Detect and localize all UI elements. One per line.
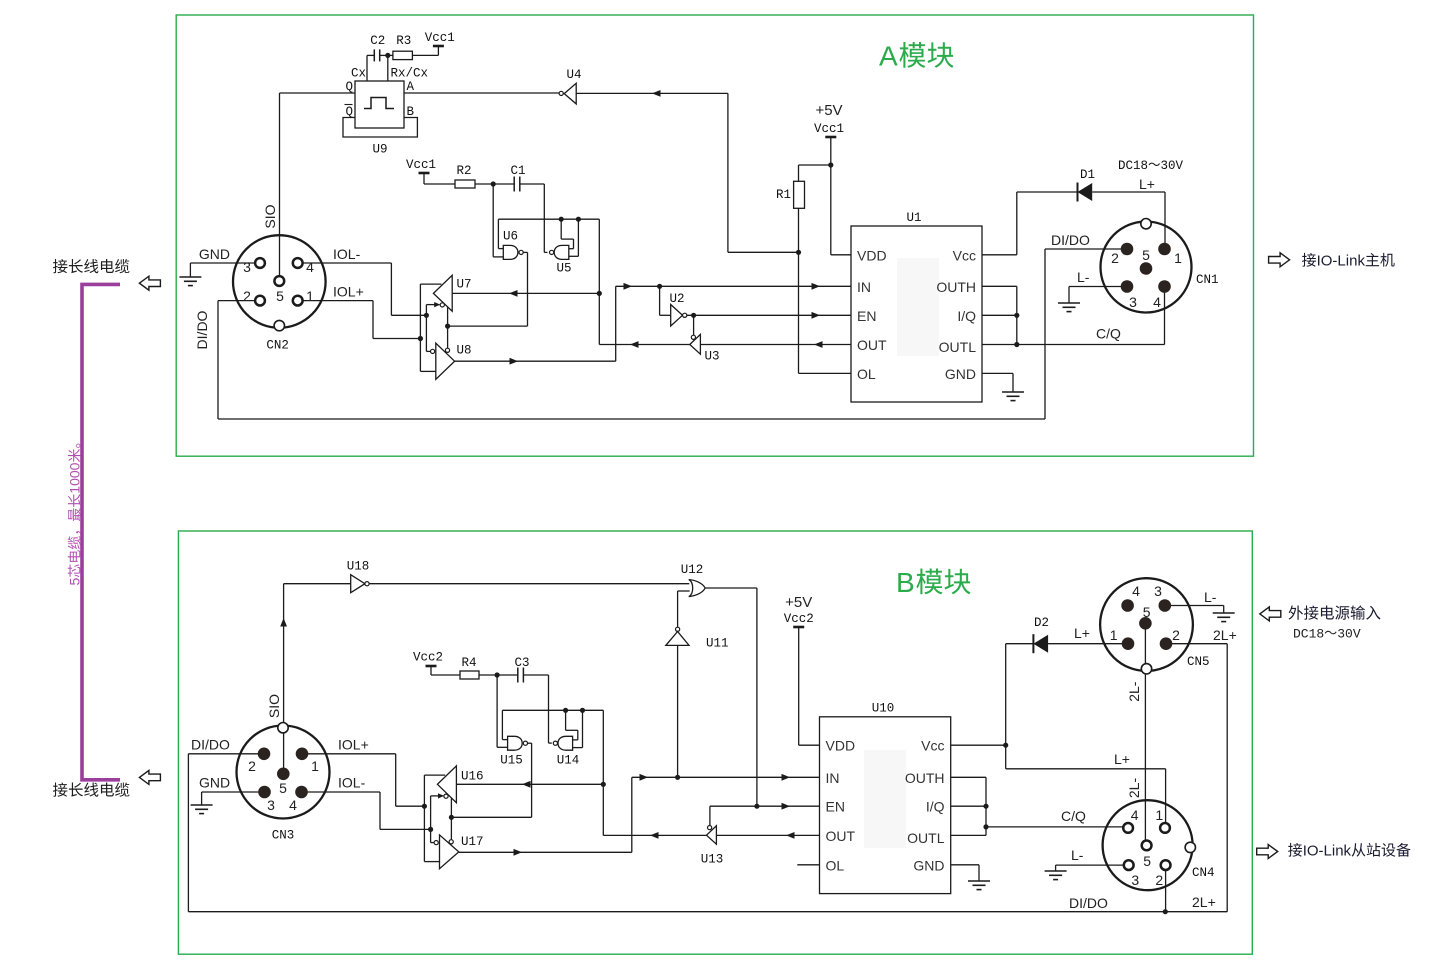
svg-text:4: 4 <box>1131 807 1139 823</box>
wire 2L- CN5 pin5 to CN4 pin5 <box>1144 625 1146 846</box>
wire OUTH/I/Q/OUTL stubs (B) <box>951 776 986 778</box>
svg-text:U10: U10 <box>872 702 895 716</box>
gate U12 <box>689 580 705 597</box>
svg-text:U18: U18 <box>347 560 370 574</box>
capacitor C2 <box>366 55 368 81</box>
wire to U17 top bubble <box>450 798 452 839</box>
wire to R1 top <box>799 164 831 166</box>
svg-text:IOL-: IOL- <box>333 246 361 262</box>
svg-text:1: 1 <box>311 758 319 774</box>
resistor R2 <box>455 180 475 188</box>
wire SIO vertical <box>279 93 281 277</box>
arrow 接IO-Link主机 <box>1269 253 1290 267</box>
svg-text:U4: U4 <box>566 68 581 82</box>
svg-text:Vcc1: Vcc1 <box>425 31 455 45</box>
svg-text:A: A <box>407 80 415 94</box>
svg-text:3: 3 <box>1129 294 1137 310</box>
svg-text:VDD: VDD <box>826 738 856 754</box>
svg-text:Vcc2: Vcc2 <box>784 612 814 626</box>
svg-text:4: 4 <box>1153 294 1161 310</box>
svg-text:IO-Link: IO-Link <box>1303 843 1352 860</box>
svg-text:Rx/Cx: Rx/Cx <box>391 67 429 81</box>
nand U5 (mirrored) <box>554 245 569 259</box>
svg-text:U5: U5 <box>556 262 571 276</box>
arrow 外接电源输入 <box>1260 607 1281 621</box>
wire U14 input jog 1 <box>565 710 567 730</box>
buffer U2 <box>671 305 683 327</box>
wire U14 input 2 <box>582 710 584 747</box>
svg-text:I/Q: I/Q <box>957 308 976 324</box>
svg-text:D1: D1 <box>1080 168 1095 182</box>
svg-text:U16: U16 <box>461 770 484 784</box>
wire U12 out <box>705 587 757 589</box>
IC U10 <box>820 717 951 894</box>
svg-text:2: 2 <box>248 758 256 774</box>
svg-text:DI/DO: DI/DO <box>1069 895 1108 911</box>
inverter U11 (up) <box>676 627 680 631</box>
wire U2 out to U3 <box>693 315 695 335</box>
wire L+ down to CN4 pin1 <box>1165 769 1167 828</box>
svg-text:2: 2 <box>1111 250 1119 266</box>
capacitor C1 <box>513 177 515 192</box>
wire U6 out <box>523 251 527 253</box>
wire GND from CN3 <box>202 791 265 793</box>
svg-text:DC18: DC18 <box>1293 627 1324 642</box>
svg-text:L+: L+ <box>1074 625 1090 641</box>
svg-text:DI/DO: DI/DO <box>191 737 230 753</box>
svg-text:IOL+: IOL+ <box>338 737 369 753</box>
wire vertical x599 <box>598 219 600 344</box>
svg-text:OUTH: OUTH <box>936 279 976 295</box>
svg-text:DI/DO: DI/DO <box>194 310 210 349</box>
wire OL row <box>799 372 852 374</box>
svg-text:5: 5 <box>1142 247 1150 263</box>
wire bus y710 (B) <box>502 709 603 711</box>
wire L- CN5 <box>1165 605 1224 607</box>
node Rx/Cx junction <box>387 55 389 81</box>
arrow to cable (bottom) <box>139 770 160 784</box>
wire feedback loop around U7/U8 <box>420 283 441 285</box>
svg-text:U17: U17 <box>461 835 484 849</box>
wire Vcc1 stem <box>830 137 832 255</box>
buffer U8 (right-pointing) <box>436 343 455 379</box>
inverter U4 <box>564 83 576 104</box>
svg-text:D2: D2 <box>1034 616 1049 630</box>
svg-text:IO-Link: IO-Link <box>1317 253 1366 270</box>
wire OUTH/I/Q/OUTL stubs <box>982 285 1017 287</box>
label 接IO-Link从站设备 <box>1288 843 1302 857</box>
connector CN3 <box>237 726 330 819</box>
diode D2 <box>1006 643 1034 645</box>
svg-text:EN: EN <box>826 799 845 815</box>
wire D2 to CN5 pin1 <box>1048 643 1128 645</box>
svg-text:4: 4 <box>289 797 297 813</box>
power Vcc1 (U9) <box>433 45 444 48</box>
svg-text:Vcc: Vcc <box>953 247 976 263</box>
svg-text:L+: L+ <box>1114 751 1130 767</box>
wire R2 node to U6 input <box>492 184 494 257</box>
wire DI/DO bottom bus (B) <box>188 911 1227 913</box>
wire IOL- branch <box>425 305 427 352</box>
svg-text:1: 1 <box>1110 627 1118 643</box>
wire R1 bottom to OL <box>798 208 800 373</box>
svg-text:EN: EN <box>857 308 876 324</box>
svg-text:GND: GND <box>945 366 976 382</box>
wire U16 row <box>456 783 603 785</box>
ground (CN3) <box>191 805 213 814</box>
power Vcc2 rail (B) <box>793 626 804 629</box>
svg-text:3: 3 <box>1131 872 1139 888</box>
svg-text:R1: R1 <box>776 188 791 202</box>
A module frame <box>176 15 1253 456</box>
svg-text:VDD: VDD <box>857 247 887 263</box>
svg-text:SIO: SIO <box>262 204 278 228</box>
svg-text:DI/DO: DI/DO <box>1051 232 1090 248</box>
svg-text:C2: C2 <box>370 34 385 48</box>
wire EN to U13 bubble <box>709 806 711 825</box>
svg-text:1: 1 <box>1174 250 1182 266</box>
wire C3 to U14 <box>548 675 550 743</box>
svg-text:OUTL: OUTL <box>939 339 977 355</box>
svg-text:5: 5 <box>67 577 83 585</box>
connector CN1 <box>1101 222 1192 313</box>
svg-text:A: A <box>879 41 898 72</box>
wire CN4 pin2 down to bus <box>1165 865 1167 912</box>
wire U18 out to U12 <box>369 583 689 585</box>
wire L+ row to CN4 <box>1006 768 1166 770</box>
svg-text:5: 5 <box>1143 853 1151 869</box>
svg-text:2: 2 <box>1155 872 1163 888</box>
svg-text:U12: U12 <box>681 563 704 577</box>
wire EN row (B) <box>710 805 820 807</box>
wire DI/DO from CN2 <box>218 300 260 302</box>
wire to U8 top bubble <box>447 307 449 348</box>
svg-text:OL: OL <box>826 857 845 873</box>
svg-text:L-: L- <box>1077 269 1090 285</box>
svg-text:1: 1 <box>306 288 314 304</box>
nand U14 (mirrored) <box>558 736 573 750</box>
svg-text:C/Q: C/Q <box>1096 326 1121 342</box>
svg-text:OUTL: OUTL <box>907 830 945 846</box>
svg-text:U14: U14 <box>557 754 580 768</box>
wire U5 input 2 <box>577 219 579 256</box>
wire C/Q row (A) <box>1017 344 1165 346</box>
wire D2 anode down to Vcc node <box>1005 644 1007 769</box>
wire GND from CN2 <box>190 262 260 264</box>
svg-text:30V: 30V <box>1161 159 1184 173</box>
svg-text:30V: 30V <box>1337 627 1361 642</box>
svg-text:IOL-: IOL- <box>338 775 366 791</box>
resistor R1 <box>794 181 805 208</box>
label 外接电源输入 <box>1289 605 1303 619</box>
wire IOL- branch (B) <box>430 796 432 843</box>
wire IOL+ from CN2 <box>298 300 373 302</box>
inverter U3 <box>690 334 701 354</box>
label 5芯电缆，最长1000米。 <box>67 444 83 586</box>
resistor R4 <box>460 671 479 679</box>
wire IN row (B) <box>632 776 820 778</box>
B module frame <box>178 531 1252 954</box>
power Vcc1 (R2) <box>419 172 430 175</box>
wire bus y219 <box>498 218 599 220</box>
wire L- CN4 <box>1056 864 1124 866</box>
wire Vcc to D1 <box>982 254 1017 256</box>
wire DI/DO from CN3 <box>188 753 264 755</box>
svg-text:+5V: +5V <box>815 102 842 119</box>
svg-text:2L+: 2L+ <box>1192 894 1216 910</box>
svg-text:2: 2 <box>243 288 251 304</box>
svg-text:C/Q: C/Q <box>1061 808 1086 824</box>
label 接长线电缆 bottom <box>53 782 67 796</box>
svg-text:4: 4 <box>306 259 314 275</box>
svg-text:Q: Q <box>345 105 353 119</box>
wire OUT row <box>700 344 851 346</box>
wire U8 output to IN <box>615 286 617 361</box>
svg-text:U13: U13 <box>701 853 724 867</box>
svg-text:U9: U9 <box>372 143 387 157</box>
svg-text:Q: Q <box>345 80 353 94</box>
svg-text:R3: R3 <box>396 34 411 48</box>
wire GND stub U10 <box>951 864 979 866</box>
connector CN2 <box>233 235 326 328</box>
svg-text:U3: U3 <box>704 350 719 364</box>
wire U11 to IN row <box>677 645 679 777</box>
wire U3 output left <box>599 344 690 346</box>
wire to U18 <box>284 583 351 585</box>
svg-text:1: 1 <box>1155 807 1163 823</box>
wire L- CN1 <box>1069 286 1127 288</box>
ground (CN5 L-) <box>1213 613 1235 622</box>
power Vcc1 rail (A) <box>825 136 836 139</box>
svg-text:2L-: 2L- <box>1126 778 1142 799</box>
diode D1 <box>1077 183 1079 202</box>
svg-text:U2: U2 <box>669 292 684 306</box>
wire C1 to U5 out <box>543 184 545 252</box>
svg-text:2: 2 <box>1172 627 1180 643</box>
svg-text:GND: GND <box>199 246 230 262</box>
wire 2L+ CN5 pin2 right and down <box>1166 643 1227 645</box>
wire to U2 input <box>659 286 661 315</box>
ground (U1) <box>1002 392 1024 401</box>
svg-text:CN3: CN3 <box>272 829 295 843</box>
wire U5 input jog 1 <box>560 219 562 239</box>
svg-text:B: B <box>407 105 415 119</box>
svg-text:5: 5 <box>279 780 287 796</box>
wire DI/DO vertical to CN1 <box>1044 249 1046 419</box>
wire U13 output left <box>603 834 706 836</box>
wire Vcc row (B) <box>951 744 1006 746</box>
svg-text:I/Q: I/Q <box>926 799 945 815</box>
inverter U13 <box>707 826 717 844</box>
svg-text:C3: C3 <box>514 656 529 670</box>
monostable U9 <box>355 81 404 128</box>
svg-text:U7: U7 <box>457 278 472 292</box>
wire feedback to R1 node <box>728 251 799 253</box>
wire U7 row <box>452 292 599 294</box>
wire U4 input from feedback <box>576 92 728 94</box>
svg-text:Vcc1: Vcc1 <box>406 158 436 172</box>
svg-text:L-: L- <box>1071 847 1084 863</box>
svg-text:GND: GND <box>913 857 944 873</box>
svg-text:SIO: SIO <box>266 694 282 718</box>
arrow to cable (top) <box>139 276 160 290</box>
buffer U7 (left-pointing) <box>433 275 452 311</box>
svg-text:5: 5 <box>1143 604 1151 620</box>
wire IOL- from CN3 <box>302 791 381 793</box>
wire VDD row <box>831 254 851 256</box>
ground (CN1 L-) <box>1058 303 1080 312</box>
power Vcc2 (R4) <box>426 665 437 668</box>
nand U6 <box>503 245 518 259</box>
svg-text:U15: U15 <box>500 754 523 768</box>
svg-text:3: 3 <box>243 259 251 275</box>
capacitor C3 <box>517 668 519 683</box>
wire Q to SIO corner <box>280 92 356 94</box>
svg-text:R4: R4 <box>461 656 476 670</box>
label 接IO-Link主机 <box>1302 253 1316 267</box>
wire vertical x603 <box>602 710 604 835</box>
label 接长线电缆 top <box>53 259 67 273</box>
cable bracket (purple) <box>82 284 120 779</box>
svg-text:Vcc2: Vcc2 <box>413 651 443 665</box>
svg-text:IOL+: IOL+ <box>333 284 364 300</box>
svg-text:L+: L+ <box>1139 176 1155 192</box>
wire feedback vertical <box>727 93 729 252</box>
svg-text:OUT: OUT <box>826 828 856 844</box>
svg-text:R2: R2 <box>456 164 471 178</box>
wire IOL+ from CN3 <box>302 753 396 755</box>
svg-text:1000: 1000 <box>67 462 83 493</box>
connector CN4 <box>1103 800 1193 890</box>
ground (CN2) <box>179 277 201 286</box>
svg-text:C1: C1 <box>510 164 525 178</box>
wire U9.A to U4 <box>404 92 559 94</box>
wire OUT row (B) <box>716 834 819 836</box>
ground (CN4 L-) <box>1045 871 1067 880</box>
svg-text:4: 4 <box>1132 583 1140 599</box>
IC U1 <box>851 226 982 402</box>
wire DI/DO bottom bus (A) <box>218 418 1045 420</box>
svg-text:IN: IN <box>857 279 871 295</box>
svg-text:OL: OL <box>857 366 876 382</box>
wire U11 to U12 <box>678 590 690 592</box>
buffer U18 <box>351 575 365 593</box>
svg-text:5: 5 <box>276 288 284 304</box>
buffer U16 (left-pointing) <box>437 766 456 803</box>
svg-text:Cx: Cx <box>351 67 366 81</box>
svg-text:CN5: CN5 <box>1187 655 1210 669</box>
svg-text:B: B <box>896 567 915 598</box>
wire feedback loop U16/U17 <box>424 774 445 776</box>
wire EN row <box>687 314 851 316</box>
wire Vcc2 stem <box>798 627 800 745</box>
svg-text:2L+: 2L+ <box>1213 627 1237 643</box>
svg-text:U6: U6 <box>503 230 518 244</box>
wire IN row <box>616 285 851 287</box>
ground (U10) <box>968 881 990 890</box>
svg-text:IN: IN <box>826 770 840 786</box>
U9 bracket <box>343 118 417 138</box>
svg-text:3: 3 <box>1154 583 1162 599</box>
pulse symbol in U9 <box>364 98 394 109</box>
svg-text:CN2: CN2 <box>266 339 289 353</box>
svg-text:2L-: 2L- <box>1126 681 1142 702</box>
wire OL stub (B) <box>797 864 819 866</box>
svg-text:U8: U8 <box>457 344 472 358</box>
svg-text:OUTH: OUTH <box>905 770 945 786</box>
wire SIO vertical (B) <box>283 584 285 769</box>
svg-text:3: 3 <box>267 797 275 813</box>
svg-text:U1: U1 <box>906 211 921 225</box>
svg-text:GND: GND <box>199 775 230 791</box>
svg-text:+5V: +5V <box>785 594 812 611</box>
nand U15 <box>508 736 523 750</box>
wire U17 out to IN row <box>631 777 633 852</box>
svg-text:Vcc1: Vcc1 <box>814 122 844 136</box>
buffer U17 (right-pointing) <box>440 835 459 869</box>
wire GND stub U1 <box>982 372 1013 374</box>
svg-text:U11: U11 <box>706 637 729 651</box>
wire R4 node to U15 input <box>496 675 498 747</box>
wire IOL- from CN2 <box>298 262 392 264</box>
svg-text:OUT: OUT <box>857 337 887 353</box>
svg-text:DC18: DC18 <box>1118 159 1148 173</box>
svg-text:L-: L- <box>1204 589 1217 605</box>
wire L+ to CN1 <box>1092 191 1165 193</box>
wire U15 out <box>528 742 532 744</box>
svg-text:CN1: CN1 <box>1196 273 1219 287</box>
arrow 接IO-Link从站设备 <box>1257 845 1278 859</box>
svg-text:CN4: CN4 <box>1192 866 1215 880</box>
wire C/Q row (B) <box>986 826 1123 828</box>
resistor R3 <box>388 54 393 56</box>
connector CN5 <box>1100 578 1193 671</box>
svg-text:Vcc: Vcc <box>921 738 944 754</box>
